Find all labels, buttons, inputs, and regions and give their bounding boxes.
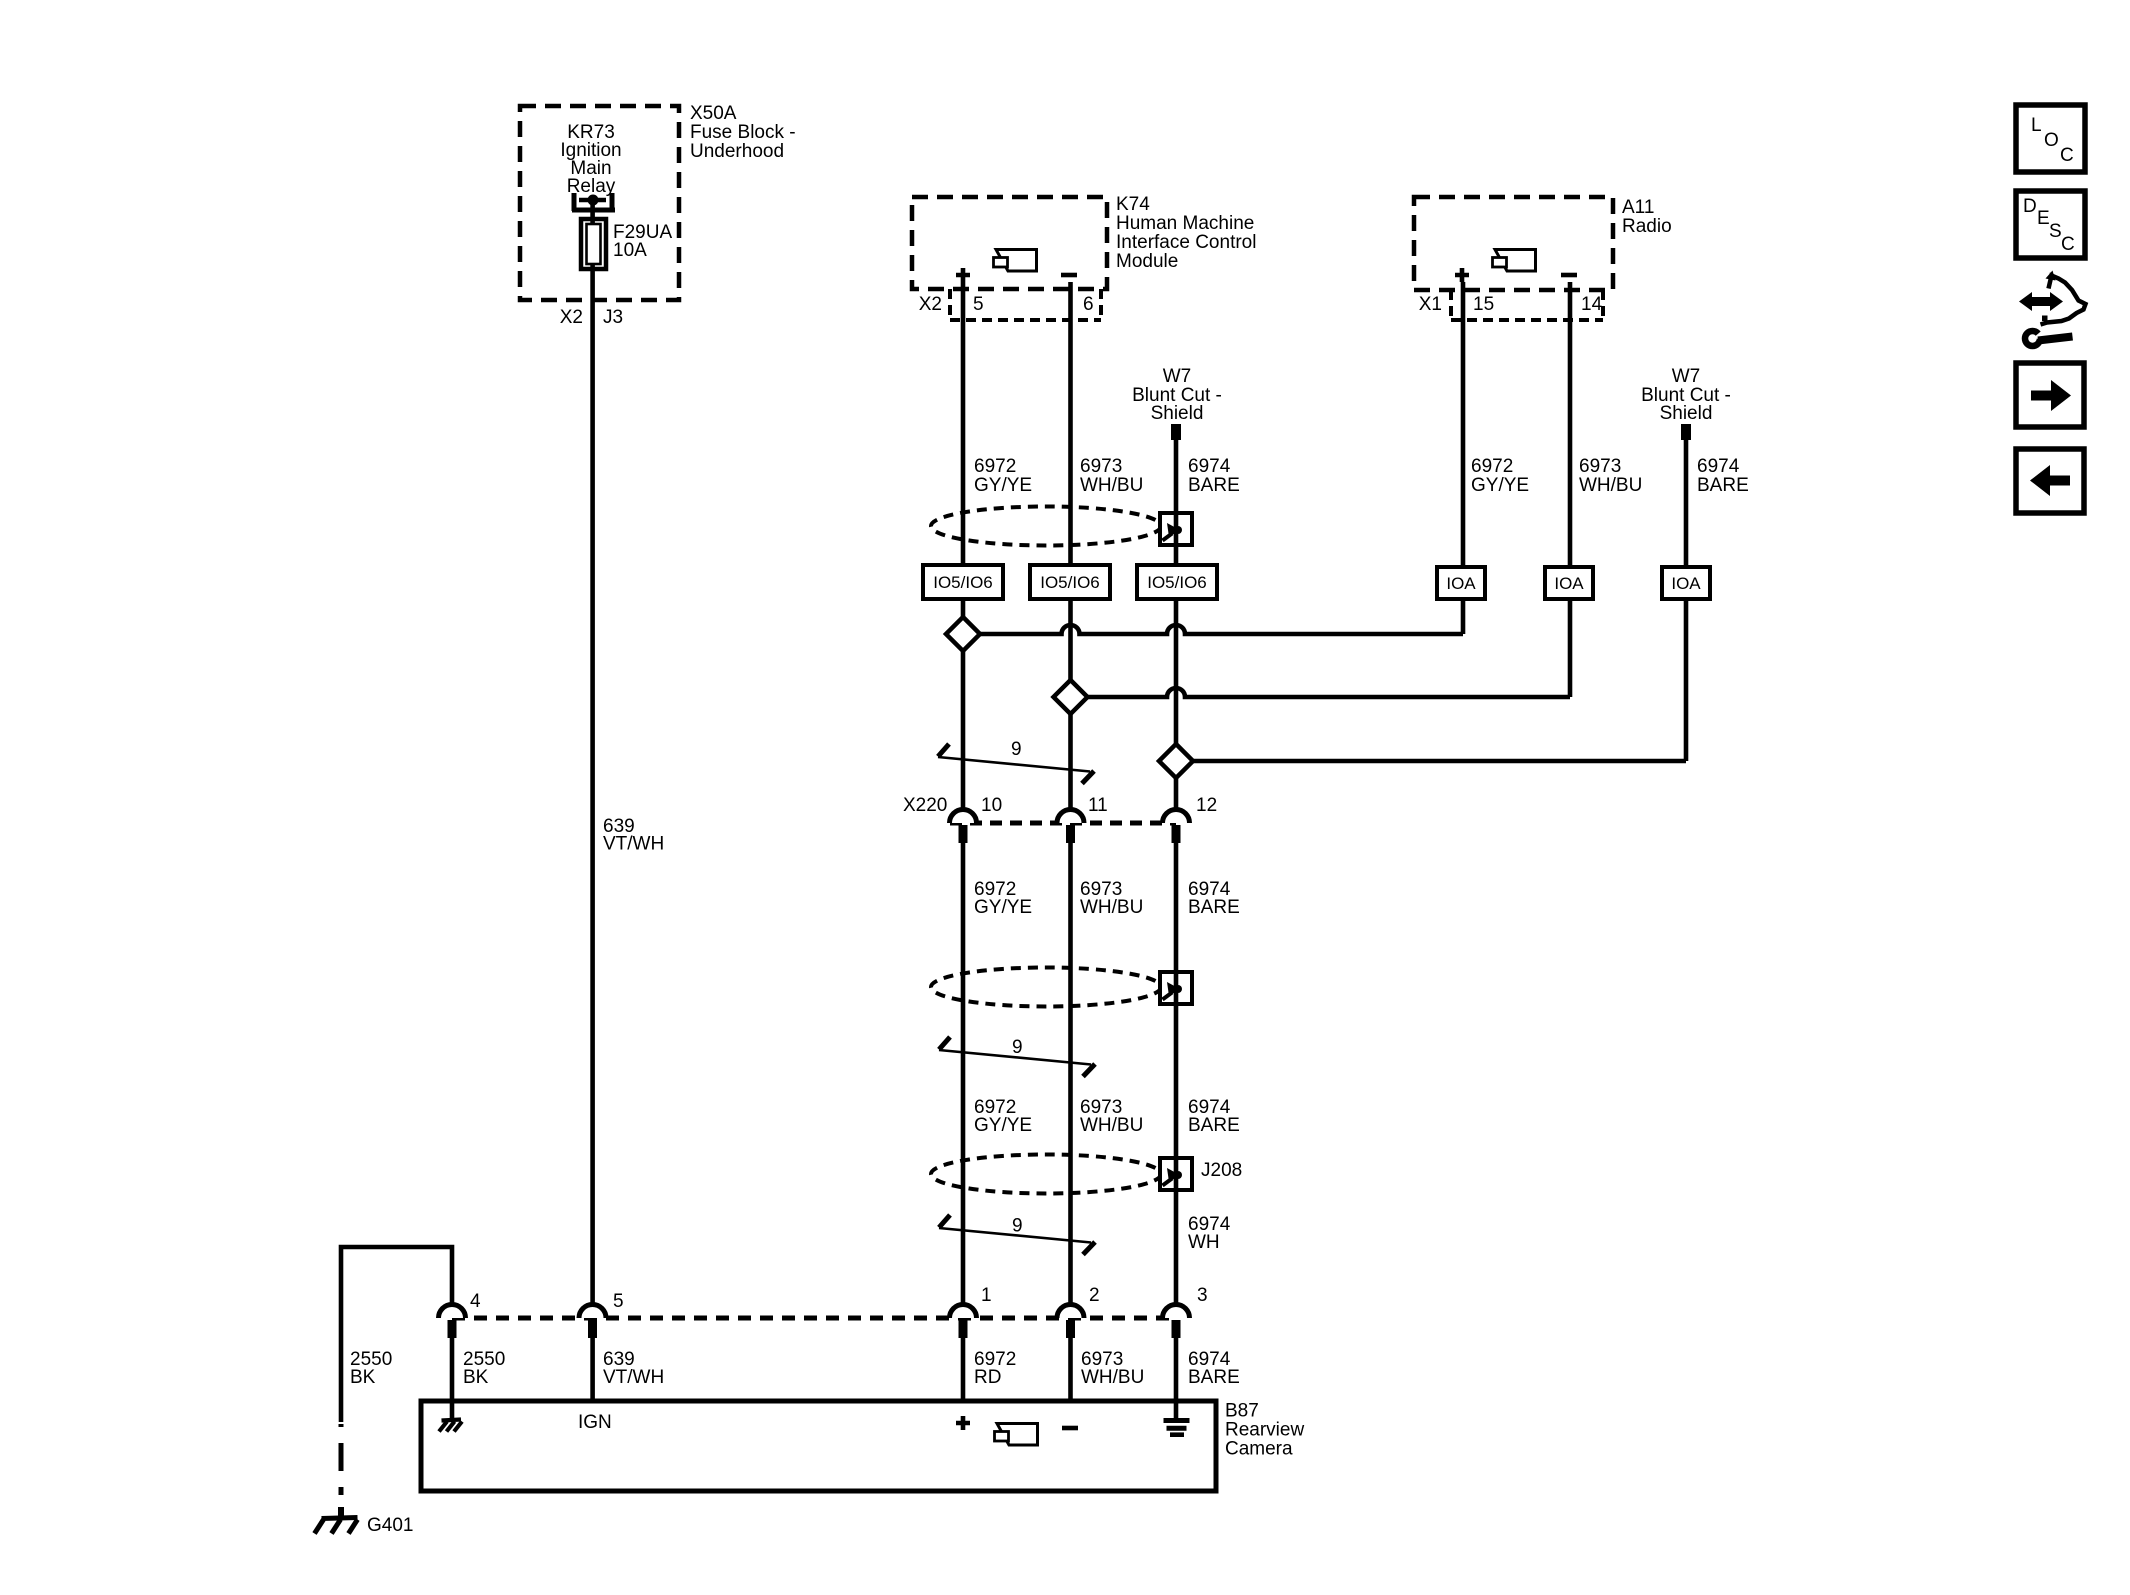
svg-text:X50A: X50A <box>690 103 737 124</box>
svg-text:3: 3 <box>1197 1285 1208 1306</box>
svg-text:X2: X2 <box>560 307 583 328</box>
wire IOA1 down to branch <box>1461 599 1466 634</box>
harness code box IO5/IO6 #1 <box>923 565 1003 599</box>
ground branch hook wire <box>341 1247 452 1422</box>
camera connector dashed line <box>452 1316 1176 1321</box>
svg-text:A11: A11 <box>1622 197 1654 218</box>
wire label 6973 WH/BU (lower) <box>1080 1097 1143 1136</box>
ground wire dashed to G401 <box>339 1424 344 1495</box>
inline connector X220 dashed line <box>950 821 1176 826</box>
ground G401 label <box>367 1515 413 1536</box>
wire stub pin3 into camera <box>1174 1338 1179 1419</box>
svg-text:6973: 6973 <box>1080 456 1122 477</box>
svg-text:RD: RD <box>974 1367 1001 1388</box>
shield ellipse 2 (dashed) <box>931 968 1161 1007</box>
wire label 6972 GY/YE (middle) <box>974 879 1032 918</box>
harness code box IOA #3 <box>1662 567 1710 599</box>
svg-text:11: 11 <box>1088 795 1108 816</box>
svg-text:W7: W7 <box>1163 366 1192 387</box>
svg-text:GY/YE: GY/YE <box>974 897 1032 918</box>
wire W7 shield drain to IO5/IO6 <box>1174 440 1179 565</box>
wire label 6974 BARE (pin 3) <box>1188 1349 1240 1388</box>
svg-text:WH/BU: WH/BU <box>1080 897 1143 918</box>
shield termination box 1 <box>1160 513 1192 545</box>
svg-text:BARE: BARE <box>1697 475 1749 496</box>
svg-text:5: 5 <box>613 1291 624 1312</box>
connector X2 of K74 (dashed) <box>950 289 1101 320</box>
splice diamond on 6974 <box>1159 744 1193 778</box>
svg-text:IO5/IO6: IO5/IO6 <box>933 573 993 592</box>
svg-text:6973: 6973 <box>1579 456 1621 477</box>
shield termination box 3 (J208) <box>1160 1158 1192 1190</box>
svg-text:Fuse Block -: Fuse Block - <box>690 122 796 143</box>
connector X1 pin labels of A11 <box>1419 294 1603 315</box>
shield termination box 2 <box>1160 972 1192 1004</box>
wire label 639 VT/WH (upper) <box>603 816 664 855</box>
harness code box IOA #2 <box>1545 567 1593 599</box>
wire label 6973 WH/BU (upper left) <box>1080 456 1143 496</box>
wire stub pin1 into camera <box>961 1338 966 1403</box>
A11 camera icon <box>1493 250 1536 272</box>
svg-text:Shield: Shield <box>1660 403 1713 424</box>
blunt cut W7 label (left) <box>1132 366 1222 424</box>
svg-text:L: L <box>2031 115 2042 136</box>
svg-text:E: E <box>2037 208 2050 229</box>
svg-text:10: 10 <box>981 795 1002 816</box>
svg-text:Radio: Radio <box>1622 216 1672 237</box>
wire stub pin2 into camera <box>1068 1338 1073 1403</box>
svg-text:IOA: IOA <box>1554 574 1584 593</box>
ground G401 symbol <box>315 1507 358 1534</box>
wire label 6972 GY/YE (lower) <box>974 1097 1032 1136</box>
svg-text:GY/YE: GY/YE <box>974 1115 1032 1136</box>
svg-text:5: 5 <box>973 294 984 315</box>
svg-text:Camera: Camera <box>1225 1439 1293 1460</box>
svg-text:6974: 6974 <box>1697 456 1740 477</box>
svg-text:WH: WH <box>1188 1232 1220 1253</box>
B87 minus terminal <box>1062 1426 1078 1431</box>
twisted pair symbol 9 (upper) <box>938 739 1094 784</box>
svg-text:BARE: BARE <box>1188 1367 1240 1388</box>
wire A11 pin14 to IOA <box>1568 282 1573 567</box>
svg-text:Shield: Shield <box>1151 403 1204 424</box>
module K74 dashed box <box>912 197 1107 289</box>
svg-text:9: 9 <box>1012 1037 1023 1058</box>
wire W7 right shield drain to IOA <box>1684 440 1689 567</box>
twisted pair symbol 9 (lower) <box>939 1215 1095 1255</box>
wire label 6973 WH/BU (middle) <box>1080 879 1143 918</box>
B87 ground symbol <box>1164 1421 1190 1435</box>
svg-text:IOA: IOA <box>1446 574 1476 593</box>
svg-text:BARE: BARE <box>1188 1115 1240 1136</box>
blunt cut W7 label (right) <box>1641 366 1731 424</box>
module K74 label <box>1116 194 1256 272</box>
wire label 6973 WH/BU (pin 2) <box>1081 1349 1144 1388</box>
wire 6973 diamond to X220 <box>1068 714 1073 810</box>
twisted pair symbol 9 (middle) <box>939 1037 1095 1077</box>
camera connector pin 4 terminal <box>439 1291 482 1338</box>
module A11 dashed box <box>1414 197 1613 290</box>
wire 6974 below X220 <box>1174 843 1179 1306</box>
svg-text:IO5/IO6: IO5/IO6 <box>1147 573 1207 592</box>
wire IOA2 down to branch <box>1568 599 1573 697</box>
camera connector pin 5 terminal <box>579 1291 624 1338</box>
svg-text:Underhood: Underhood <box>690 141 784 162</box>
harness code box IOA #1 <box>1437 567 1485 599</box>
K74 minus terminal <box>1061 273 1077 278</box>
wire 6972 below X220 <box>961 843 966 1306</box>
wire 6974 diamond to X220 <box>1174 778 1179 810</box>
module B87 label <box>1225 1401 1304 1460</box>
K74 camera icon <box>994 250 1037 272</box>
svg-text:WH/BU: WH/BU <box>1081 1367 1144 1388</box>
wire label 6974 BARE (upper left) <box>1188 456 1240 496</box>
camera connector pin 3 terminal <box>1163 1285 1208 1338</box>
svg-text:6972: 6972 <box>1471 456 1513 477</box>
svg-text:9: 9 <box>1011 739 1022 760</box>
svg-text:VT/WH: VT/WH <box>603 834 664 855</box>
svg-text:6974: 6974 <box>1188 456 1231 477</box>
svg-text:15: 15 <box>1473 294 1494 315</box>
K74 plus terminal <box>956 268 970 282</box>
svg-text:J208: J208 <box>1201 1160 1242 1181</box>
X220 pin 11 terminal <box>1057 795 1108 843</box>
svg-text:WH/BU: WH/BU <box>1080 475 1143 496</box>
svg-text:X2: X2 <box>919 294 942 315</box>
wire label 6973 WH/BU (upper right) <box>1579 456 1642 496</box>
connector X2 pin labels of K74 <box>919 294 1094 315</box>
sidebar back-page arrow button <box>2016 449 2084 513</box>
rearview camera B87 box <box>421 1401 1216 1491</box>
connector label X2 / J3 at fuse block <box>560 307 623 328</box>
wire IOA3 down to branch <box>1684 599 1689 761</box>
wire label 2550 BK (left) <box>350 1349 392 1388</box>
wire label 6974 BARE (upper right) <box>1697 456 1749 496</box>
svg-text:X220: X220 <box>903 795 947 816</box>
svg-text:B87: B87 <box>1225 1401 1259 1422</box>
svg-text:Module: Module <box>1116 251 1178 272</box>
wire stub pin4 into camera <box>450 1338 455 1420</box>
wire A11 pin15 to IOA <box>1461 282 1466 567</box>
wire label 6972 GY/YE (upper right) <box>1471 456 1529 496</box>
svg-text:14: 14 <box>1581 294 1603 315</box>
svg-text:6: 6 <box>1083 294 1094 315</box>
svg-text:G401: G401 <box>367 1515 413 1536</box>
wire label 6972 GY/YE (upper left) <box>974 456 1032 496</box>
harness code box IO5/IO6 #2 <box>1030 565 1110 599</box>
svg-text:C: C <box>2061 234 2075 255</box>
svg-text:GY/YE: GY/YE <box>974 475 1032 496</box>
wire 6974 from IO5/IO6 down <box>1174 599 1179 744</box>
svg-text:BARE: BARE <box>1188 897 1240 918</box>
branch wire 6973 to radio (with hop) <box>1088 688 1571 697</box>
svg-text:9: 9 <box>1012 1216 1023 1237</box>
sidebar diagnostic icon (double arrow, outline, wrench) <box>2019 271 2086 347</box>
wire label 639 VT/WH (pin 5) <box>603 1349 664 1388</box>
svg-text:GY/YE: GY/YE <box>1471 475 1529 496</box>
A11 minus terminal <box>1561 273 1577 278</box>
svg-text:10A: 10A <box>613 240 647 261</box>
svg-text:IO5/IO6: IO5/IO6 <box>1040 573 1100 592</box>
svg-text:WH/BU: WH/BU <box>1080 1115 1143 1136</box>
svg-text:1: 1 <box>981 1285 992 1306</box>
svg-text:Human Machine: Human Machine <box>1116 213 1254 234</box>
camera connector pin 1 terminal <box>950 1285 992 1338</box>
svg-text:2: 2 <box>1089 1285 1100 1306</box>
splice diamond on 6972 <box>946 617 980 651</box>
svg-text:VT/WH: VT/WH <box>603 1367 664 1388</box>
svg-text:Rearview: Rearview <box>1225 1420 1304 1441</box>
fuse F29UA symbol <box>581 219 606 269</box>
shield ellipse 3 (dashed) <box>931 1155 1161 1194</box>
svg-text:12: 12 <box>1196 795 1217 816</box>
A11 plus terminal <box>1455 268 1469 282</box>
fuse block X50A label <box>690 103 796 162</box>
wire K74 pin6 to IO5/IO6 <box>1068 282 1073 565</box>
wire label 6972 RD (pin 1) <box>974 1349 1016 1388</box>
splice diamond on 6973 <box>1054 680 1088 714</box>
svg-text:4: 4 <box>470 1291 481 1312</box>
B87 plus terminal <box>956 1416 970 1430</box>
wire 639 VT/WH from relay to camera connector <box>590 200 595 1306</box>
wire K74 pin5 to IO5/IO6 <box>961 282 966 565</box>
camera connector pin 2 terminal <box>1057 1285 1100 1338</box>
shield ellipse 1 (dashed) <box>931 507 1161 546</box>
svg-text:J3: J3 <box>603 307 623 328</box>
svg-text:K74: K74 <box>1116 194 1150 215</box>
sidebar next-page arrow button <box>2016 363 2084 427</box>
splice label J208 <box>1201 1160 1242 1181</box>
wire label 6974 BARE (lower) <box>1188 1097 1240 1136</box>
svg-text:IOA: IOA <box>1671 574 1701 593</box>
B87 chassis ground symbol <box>439 1420 462 1432</box>
wire label 6974 WH <box>1188 1214 1231 1253</box>
svg-text:W7: W7 <box>1672 366 1701 387</box>
relay KR73 label <box>560 122 621 197</box>
harness code box IO5/IO6 #3 <box>1137 565 1217 599</box>
fuse block X50A dashed box <box>520 106 679 300</box>
svg-text:X1: X1 <box>1419 294 1442 315</box>
B87 camera icon <box>995 1424 1038 1446</box>
sidebar DESC button <box>2016 191 2085 258</box>
fuse F29UA label <box>613 222 672 261</box>
wire label 6974 BARE (middle) <box>1188 879 1240 918</box>
svg-text:Interface Control: Interface Control <box>1116 232 1256 253</box>
svg-text:S: S <box>2049 221 2062 242</box>
connector X220 label <box>903 795 947 816</box>
wire 6972 from IO5/IO6 to splice diamond <box>961 599 966 617</box>
module A11 label <box>1622 197 1672 237</box>
wire stub pin5 into camera <box>590 1338 595 1403</box>
svg-text:IGN: IGN <box>578 1412 612 1433</box>
sidebar LOC button <box>2016 105 2085 172</box>
connector X1 of A11 (dashed) <box>1451 290 1603 320</box>
X220 pin 10 terminal <box>950 795 1003 843</box>
wire 6973 from IO5/IO6 down <box>1068 599 1073 680</box>
svg-text:BK: BK <box>350 1367 376 1388</box>
wire 6973 below X220 <box>1068 843 1073 1306</box>
svg-text:O: O <box>2044 130 2059 151</box>
X220 pin 12 terminal <box>1163 795 1218 843</box>
wire 6972 diamond to X220 <box>961 651 966 810</box>
blunt cut W7 stub (left) <box>1171 424 1181 440</box>
branch wire 6974 to radio <box>1193 759 1686 764</box>
svg-text:C: C <box>2060 145 2074 166</box>
blunt cut W7 stub (right) <box>1681 424 1691 440</box>
svg-text:6972: 6972 <box>974 456 1016 477</box>
svg-text:WH/BU: WH/BU <box>1579 475 1642 496</box>
relay KR73 contact symbol <box>572 193 615 211</box>
svg-text:BARE: BARE <box>1188 475 1240 496</box>
svg-text:D: D <box>2023 196 2037 217</box>
svg-text:BK: BK <box>463 1367 489 1388</box>
branch wire 6972 to radio (with hops) <box>980 625 1463 634</box>
wire label 2550 BK (pin 4) <box>463 1349 505 1388</box>
B87 IGN pin label <box>578 1412 612 1433</box>
